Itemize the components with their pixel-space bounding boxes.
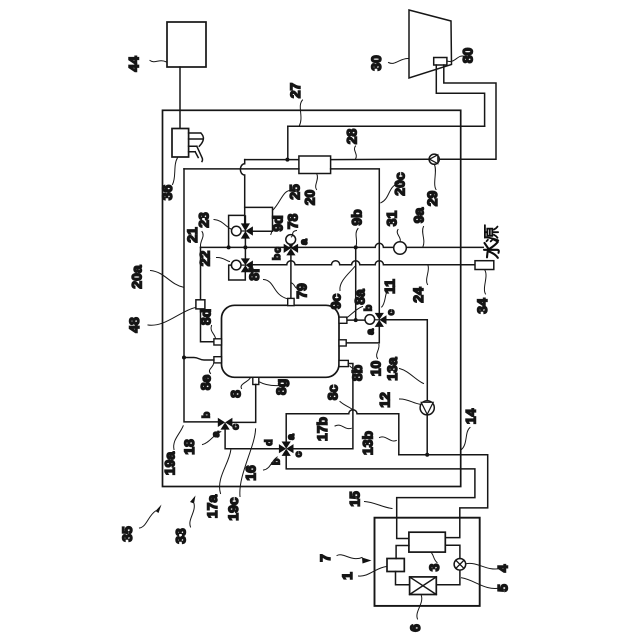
leader 24 [427, 265, 429, 284]
valve 22 actuator circle [241, 264, 245, 266]
leader 23 [214, 220, 231, 230]
svg-text:a: a [210, 431, 222, 437]
sensor node 48 [196, 300, 205, 309]
pipe to outdoor unit upper [399, 455, 488, 538]
svg-text:9a: 9a [411, 208, 427, 224]
burner 36 flame lines [189, 133, 204, 162]
svg-text:b: b [271, 254, 283, 260]
svg-text:c: c [293, 451, 305, 457]
leader 9d [271, 226, 276, 235]
heat exchanger box 20/25 [299, 156, 331, 174]
svg-text:16: 16 [243, 465, 259, 481]
kanji gen (source) [485, 225, 498, 241]
pipe 28 left segment to heat exchanger 20 [245, 159, 299, 161]
bypass loop 9d [245, 207, 273, 231]
leader 5 [462, 578, 501, 589]
leader 17b [335, 425, 351, 429]
svg-text:c: c [272, 247, 284, 253]
valve 11/8a cross [375, 313, 387, 327]
svg-text:b: b [271, 459, 283, 465]
valve 22 cross [241, 258, 253, 272]
svg-text:8e: 8e [198, 375, 214, 391]
leader 16 [264, 457, 278, 470]
node dot b [243, 245, 247, 249]
svg-text:7: 7 [317, 554, 333, 562]
leader 31 [397, 230, 400, 242]
wire 44 to burner 36 [179, 67, 181, 129]
svg-text:8a: 8a [352, 289, 368, 305]
svg-text:a: a [285, 434, 297, 440]
kanji mizu (water) [484, 242, 499, 258]
svg-text:17a: 17a [204, 495, 220, 519]
svg-text:a: a [298, 239, 310, 245]
svg-text:10: 10 [368, 361, 384, 377]
tank right port 8b [339, 360, 348, 366]
tank right port b [339, 317, 347, 323]
svg-text:d: d [263, 439, 275, 445]
svg-text:9d: 9d [270, 215, 286, 231]
pipe accumulator 1 to compressor 6 [396, 572, 410, 585]
accumulator 1 [387, 559, 404, 572]
leader 48 [148, 308, 196, 326]
valve 78 actuator circle [286, 235, 296, 245]
leader 20c [381, 184, 399, 203]
leader 19c [240, 429, 256, 497]
leader 3 [432, 553, 438, 563]
LEADERS [140, 56, 501, 619]
outdoor unit box 7 [375, 518, 480, 606]
valve 18 cross [218, 418, 233, 430]
pipe 17b valve 16 top run right and down [286, 410, 399, 455]
svg-text:48: 48 [126, 317, 142, 333]
svg-text:8b: 8b [349, 365, 365, 381]
valve 16 cross [279, 442, 294, 456]
pipe 8f/24 from valve 22 to water inlet 34 [253, 261, 475, 265]
leader 18 [203, 432, 221, 445]
leader 8d [211, 326, 215, 339]
svg-text:34: 34 [474, 298, 490, 314]
svg-text:c: c [385, 309, 397, 315]
leader 78 [291, 231, 296, 238]
svg-text:18: 18 [181, 439, 197, 455]
pipe pump 12 down to junction [426, 415, 428, 455]
svg-text:20c: 20c [392, 172, 408, 196]
pipe 28 right segment heat exchanger to pump 29 [331, 158, 430, 160]
leader 25 [273, 190, 292, 209]
tank bottom port 8g [253, 377, 259, 384]
pipe 27 horizontal [288, 125, 485, 127]
leader 33 arrow [190, 504, 194, 528]
pipe 20a left vertical down to valve 18 [184, 169, 218, 422]
pipe 20b from heat exchanger to valve 11 top [331, 169, 380, 313]
svg-text:79: 79 [294, 283, 310, 299]
pipe 79 valve 78 down to tank top port [290, 255, 292, 298]
pipe 8e from 20a line to port 8e [184, 358, 214, 361]
leader 19a [174, 426, 184, 450]
enclosure box 35 [163, 110, 461, 486]
refrigerant heat exchanger 3 [409, 532, 445, 552]
solar collector 30 trapezoid [409, 10, 452, 78]
node dot 8e [182, 356, 186, 360]
leader 29 [434, 165, 436, 190]
svg-text:31: 31 [384, 211, 400, 227]
leader 21 [200, 232, 203, 247]
leader 8 [241, 378, 250, 389]
descending pipe from junction with hop over 20a [240, 160, 244, 224]
valve 23 actuator circle [241, 230, 245, 232]
svg-text:24: 24 [410, 287, 426, 303]
valve 23 stem bottom [244, 239, 246, 248]
leader 8c [340, 402, 352, 410]
svg-text:a: a [365, 329, 377, 335]
svg-text:21: 21 [184, 227, 200, 243]
svg-text:11: 11 [382, 279, 398, 294]
svg-text:33: 33 [173, 528, 189, 544]
leader 17a [220, 450, 231, 494]
svg-text:12: 12 [377, 392, 393, 408]
svg-text:8c: 8c [325, 385, 341, 401]
leader 30 [389, 58, 409, 63]
svg-text:b: b [201, 412, 213, 418]
svg-text:13b: 13b [360, 431, 376, 455]
pipe exchanger 3 lower-left to accumulator 1 [396, 546, 409, 559]
svg-text:15: 15 [347, 491, 363, 507]
leader 13b [380, 437, 397, 441]
valve 23 stem top [244, 216, 246, 223]
svg-text:8: 8 [228, 390, 244, 398]
leader 20 [316, 174, 318, 190]
pipe port b to valve 11 [347, 319, 365, 321]
svg-text:78: 78 [285, 214, 301, 230]
leader 44 [150, 61, 167, 63]
svg-text:1: 1 [339, 572, 355, 580]
pump 29 [429, 154, 439, 164]
pipe valve 4 top to exchanger 3 lower-right [445, 545, 460, 558]
svg-text:14: 14 [463, 409, 479, 425]
pipe 9c from node 9b down to tank port b [355, 247, 357, 320]
leader 11 [382, 289, 390, 308]
svg-text:29: 29 [424, 191, 440, 207]
expansion valve 4 [454, 559, 466, 571]
leader 15 [365, 502, 393, 509]
svg-text:8g: 8g [273, 379, 289, 395]
leader 8f [264, 280, 288, 299]
leader 27 [299, 100, 302, 126]
svg-text:20: 20 [302, 190, 318, 206]
node dot 9b [354, 245, 358, 249]
pipe c/13a valve 11 right then down to pump 12 [387, 320, 428, 401]
svg-text:4: 4 [495, 564, 511, 572]
leader 28 [354, 146, 356, 159]
wire B collector 80 right pin to pump 29 line [439, 65, 496, 159]
leader 35 arrow [140, 511, 156, 528]
svg-text:25: 25 [287, 184, 303, 200]
valve 23 cross [241, 223, 253, 238]
leader 36 [173, 158, 178, 185]
svg-text:80: 80 [460, 48, 476, 64]
pipe 27 drop to junction [287, 126, 289, 159]
svg-text:9b: 9b [349, 209, 365, 225]
leader 8e [209, 364, 213, 374]
svg-text:23: 23 [196, 212, 212, 228]
leader 10 [377, 345, 379, 359]
tank top port 8f [288, 298, 294, 305]
junction node dot [285, 158, 289, 162]
svg-text:c: c [230, 424, 242, 430]
pipe 8b/8c from tank port 8b down to valve 16 right [294, 364, 353, 449]
svg-text:9c: 9c [328, 294, 344, 310]
leader 6 [417, 596, 422, 620]
svg-text:44: 44 [126, 56, 142, 72]
water line left drop to port 8d [201, 247, 214, 341]
leader 79 [291, 283, 299, 289]
wire A collector 80 left pin to line 27 [436, 65, 484, 126]
leader 8b [350, 366, 357, 370]
leader 8g [259, 382, 279, 386]
pipe 15 valve 16 bottom to outdoor unit [286, 456, 475, 539]
leader 9c [340, 267, 355, 291]
svg-text:8f: 8f [246, 268, 262, 281]
tank left port 8e [214, 357, 222, 363]
valve 22 bottom hook pipe [229, 265, 246, 280]
label water source [484, 225, 499, 258]
pipe valve 18 right to tank port 8g [232, 385, 255, 423]
tank left port 8d [214, 339, 222, 345]
water inlet fitting 34 [475, 261, 494, 270]
svg-text:19c: 19c [225, 497, 241, 521]
pipe 10 valve 11 bottom to tank port a [346, 327, 379, 343]
valve 11 actuator circle [375, 319, 380, 321]
pump 12 [420, 401, 434, 415]
svg-text:20a: 20a [129, 265, 145, 289]
inline device circle 31 [394, 242, 407, 255]
leader 14 [462, 428, 471, 450]
node dot 9c [354, 318, 358, 322]
leader 12 [400, 399, 421, 404]
hot water tank 8 [222, 305, 340, 377]
leader 80 [447, 56, 465, 62]
svg-text:36: 36 [159, 185, 175, 201]
svg-text:6: 6 [407, 624, 423, 632]
leader 7 arrow [337, 555, 362, 559]
collector sensor box 80 [434, 58, 447, 66]
svg-text:17b: 17b [314, 417, 330, 441]
leader 9a [423, 227, 424, 247]
svg-text:5: 5 [495, 584, 511, 592]
leader 4 [466, 563, 500, 569]
node dot a [227, 245, 231, 249]
svg-text:35: 35 [119, 526, 135, 542]
valve 78 cross [284, 241, 298, 255]
leader 9b [356, 229, 358, 247]
tank right port a [339, 340, 346, 346]
leader 1 [359, 567, 387, 577]
svg-text:19a: 19a [162, 452, 178, 476]
pipe 20a top run [184, 168, 299, 170]
svg-text:8d: 8d [198, 309, 214, 325]
junction dot 12 [425, 453, 429, 457]
burner 36 body [172, 129, 189, 158]
svg-text:28: 28 [344, 129, 360, 145]
svg-text:b: b [363, 305, 375, 311]
controller box 44 [167, 22, 206, 67]
svg-text:30: 30 [368, 55, 384, 71]
compressor 6 [410, 577, 437, 595]
leader 22 [217, 257, 230, 261]
stub from loop to water line [229, 215, 245, 247]
leader 8a [347, 307, 363, 319]
svg-text:27: 27 [287, 83, 303, 99]
valve 22 stem top [244, 247, 246, 258]
leader 34 [484, 270, 486, 294]
svg-text:3: 3 [426, 563, 442, 571]
pipe valve 18 bottom to valve 16 left [225, 430, 279, 449]
water supply line 9a [201, 243, 484, 247]
leader 20a [151, 271, 184, 288]
leader 13a [400, 369, 424, 384]
svg-text:22: 22 [197, 251, 213, 267]
pipe compressor to expansion valve 4 [436, 570, 460, 585]
svg-text:13a: 13a [384, 357, 400, 381]
